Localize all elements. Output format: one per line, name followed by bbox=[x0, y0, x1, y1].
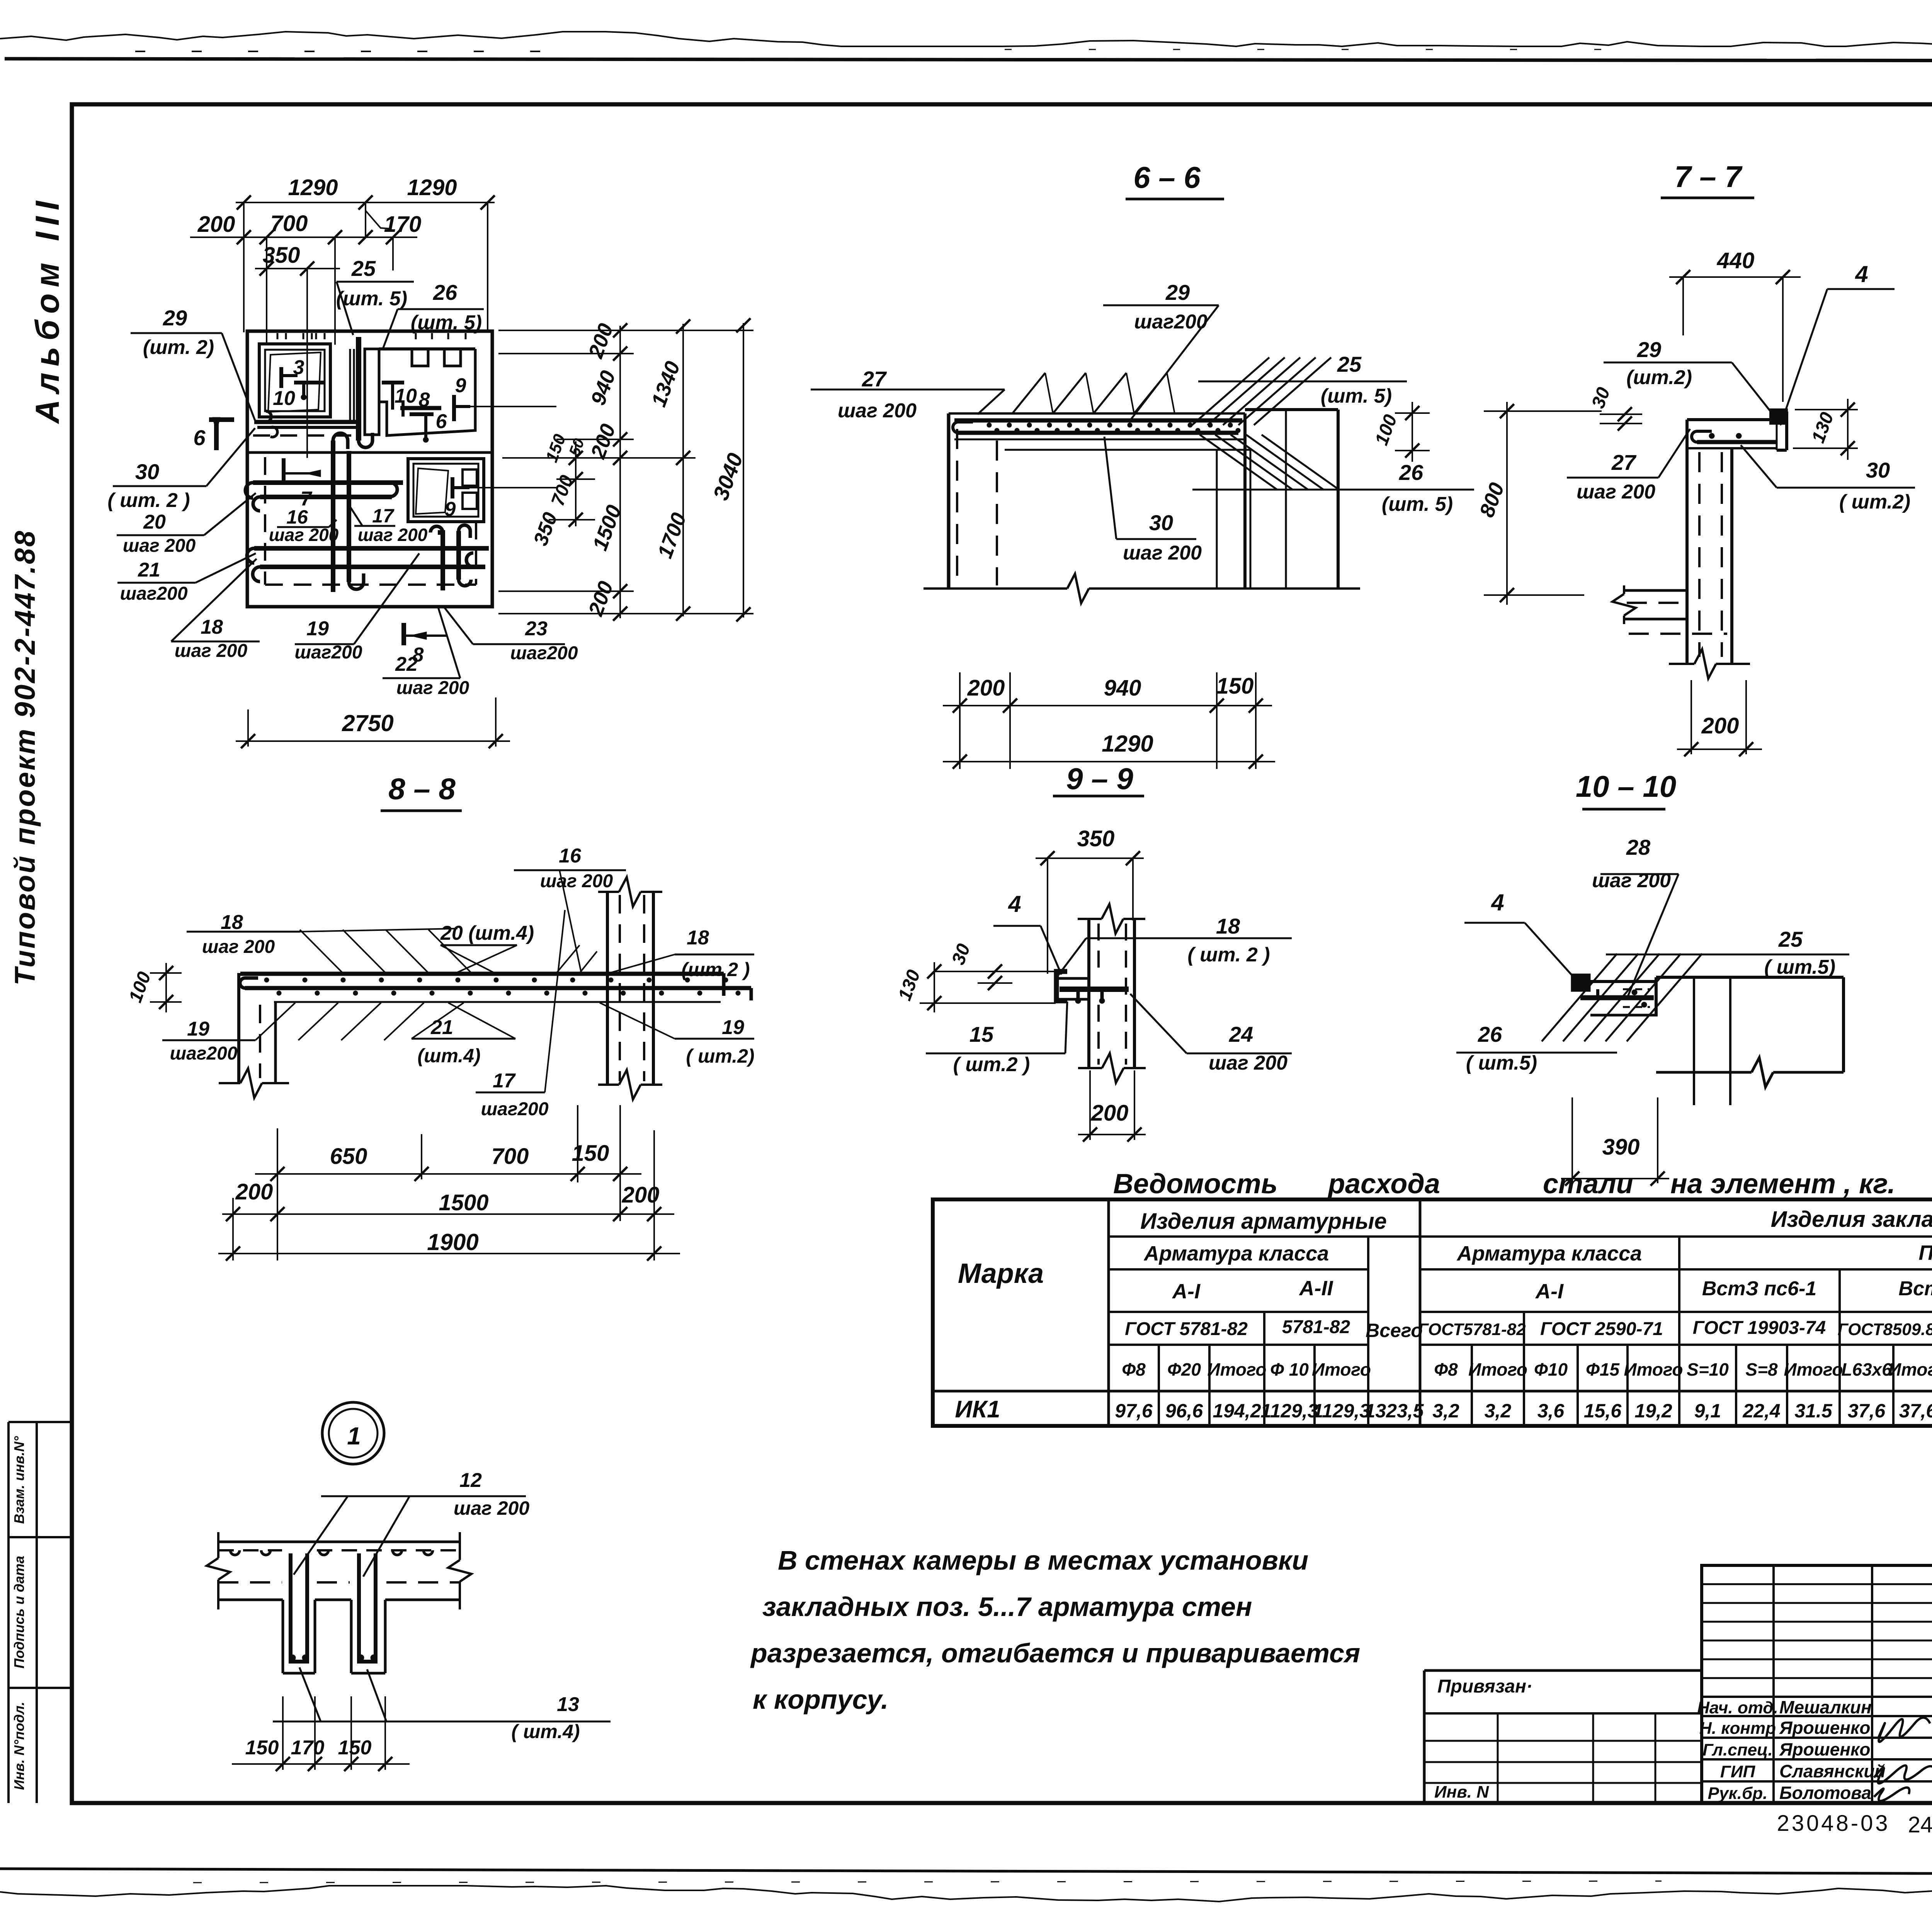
section 6-6 slab bbox=[949, 412, 1245, 415]
section 6-6 bottom dims 200 940 150 bbox=[943, 705, 1272, 706]
plan outer square bbox=[247, 331, 492, 607]
plan vertical rebar bar 16 bbox=[331, 441, 335, 592]
svg-text:Рук.бр.: Рук.бр. bbox=[1708, 1784, 1768, 1803]
svg-text:(шт.2 ): (шт.2 ) bbox=[681, 959, 750, 980]
svg-text:Альбом III: Альбом III bbox=[29, 195, 66, 424]
svg-text:Н. контр: Н. контр bbox=[1699, 1719, 1776, 1738]
svg-text:200: 200 bbox=[235, 1179, 273, 1204]
svg-text:1700: 1700 bbox=[653, 510, 690, 561]
plan right dim chain 1340-1700 bbox=[682, 324, 684, 616]
svg-text:12: 12 bbox=[459, 1469, 482, 1492]
section 9-9 dim 350 bbox=[1036, 857, 1144, 859]
svg-text:10 – 10: 10 – 10 bbox=[1576, 769, 1676, 803]
svg-text:1: 1 bbox=[347, 1422, 361, 1450]
svg-text:17: 17 bbox=[372, 505, 395, 527]
svg-text:25: 25 bbox=[351, 256, 376, 281]
svg-text:24: 24 bbox=[1229, 1022, 1253, 1046]
plan right dim chain 200-940-200-1500-200 bbox=[619, 326, 621, 618]
plan section cut mark 8 bottom bbox=[401, 623, 406, 645]
section 6-6 ground line with break bbox=[923, 587, 1067, 590]
svg-text:650: 650 bbox=[330, 1144, 367, 1169]
svg-text:37,6: 37,6 bbox=[1899, 1400, 1932, 1422]
plan rebar bar 18 lower bbox=[260, 565, 485, 569]
svg-text:шаг200: шаг200 bbox=[510, 643, 578, 663]
steel table horizontal lines bbox=[1109, 1235, 1932, 1238]
section 7-7 left stub wall bbox=[1624, 589, 1687, 592]
svg-text:6 – 6: 6 – 6 bbox=[1133, 160, 1201, 194]
svg-text:19: 19 bbox=[722, 1016, 744, 1039]
svg-text:Ярошенко: Ярошенко bbox=[1779, 1739, 1870, 1759]
svg-text:( шт. 2 ): ( шт. 2 ) bbox=[1187, 944, 1270, 966]
svg-text:17: 17 bbox=[493, 1070, 516, 1092]
svg-text:18: 18 bbox=[221, 911, 243, 934]
section 9-9 slab stub bbox=[1056, 977, 1089, 980]
section 7-7 bottom dim 200 bbox=[1677, 748, 1762, 750]
svg-text:13: 13 bbox=[557, 1693, 579, 1716]
section 10-10 slab bbox=[1590, 980, 1656, 983]
svg-text:350: 350 bbox=[1077, 826, 1115, 851]
svg-text:390: 390 bbox=[1602, 1135, 1640, 1160]
svg-text:150: 150 bbox=[338, 1737, 372, 1759]
svg-text:Привязан·: Привязан· bbox=[1437, 1676, 1532, 1697]
svg-text:18: 18 bbox=[687, 927, 709, 949]
svg-text:30: 30 bbox=[135, 459, 159, 484]
plan dimension 350 bbox=[255, 268, 340, 269]
plan center connector poz25 bbox=[356, 337, 361, 441]
section 6-6 right wall block bbox=[1245, 408, 1338, 411]
svg-text:350: 350 bbox=[529, 509, 562, 548]
svg-text:30: 30 bbox=[1588, 384, 1614, 411]
plan mid divider bbox=[247, 451, 492, 454]
detail 1 rib 2 bbox=[350, 1600, 353, 1673]
svg-text:27: 27 bbox=[1611, 450, 1637, 475]
svg-text:3: 3 bbox=[293, 356, 304, 379]
svg-text:170: 170 bbox=[384, 212, 422, 237]
svg-text:Подпись и дата: Подпись и дата bbox=[11, 1556, 27, 1669]
plan section cut mark 6 left bbox=[209, 417, 234, 422]
svg-text:Изделия закладные: Изделия закладные bbox=[1771, 1207, 1932, 1232]
svg-text:18: 18 bbox=[1216, 914, 1240, 938]
svg-text:( шт.5): ( шт.5) bbox=[1466, 1052, 1537, 1074]
svg-text:10: 10 bbox=[395, 385, 417, 407]
svg-text:шаг 200: шаг 200 bbox=[1577, 481, 1655, 503]
svg-text:5781-82: 5781-82 bbox=[1282, 1317, 1350, 1337]
svg-text:700: 700 bbox=[270, 211, 308, 236]
svg-text:150: 150 bbox=[542, 432, 570, 465]
svg-text:ГОСТ5781-82: ГОСТ5781-82 bbox=[1418, 1320, 1526, 1339]
svg-text:25: 25 bbox=[1778, 927, 1803, 951]
plan right dim chain 3040 bbox=[743, 323, 744, 617]
paper bottom edge dashes bbox=[193, 1881, 1662, 1883]
section 9-9 embed channel bbox=[1056, 971, 1067, 1001]
detail 1 rib 1 stirrup bbox=[291, 1553, 307, 1662]
svg-text:шаг200: шаг200 bbox=[170, 1043, 237, 1064]
svg-text:ГОСТ 19903-74: ГОСТ 19903-74 bbox=[1693, 1318, 1826, 1338]
svg-text:Итого: Итого bbox=[1888, 1359, 1932, 1380]
plan top-left opening formwork dashes bbox=[277, 333, 279, 343]
section 7-7 dim 130 bbox=[1795, 409, 1858, 410]
svg-text:22,4: 22,4 bbox=[1742, 1400, 1780, 1422]
svg-text:200: 200 bbox=[197, 212, 235, 237]
section 10-10 slab rebar bbox=[1580, 995, 1654, 1000]
svg-text:Арматура класса: Арматура класса bbox=[1456, 1242, 1642, 1265]
svg-text:16: 16 bbox=[559, 845, 582, 867]
svg-text:шаг 200: шаг 200 bbox=[1209, 1052, 1287, 1074]
svg-text:28: 28 bbox=[1626, 835, 1651, 859]
svg-text:940: 940 bbox=[1104, 675, 1141, 701]
title block central grid bbox=[1702, 1565, 1932, 1803]
plan bottom-right embed mark 9 bbox=[451, 477, 454, 498]
svg-text:170: 170 bbox=[291, 1737, 325, 1759]
svg-text:9: 9 bbox=[445, 498, 456, 521]
svg-text:ГИП: ГИП bbox=[1720, 1762, 1756, 1781]
title block Привязан box bbox=[1424, 1669, 1702, 1672]
svg-text:6: 6 bbox=[436, 410, 447, 433]
section 8-8 dim 100 left bbox=[150, 972, 182, 974]
section 8-8 slab rebar dots bbox=[264, 978, 269, 982]
svg-text:А-II: А-II bbox=[1299, 1277, 1333, 1300]
svg-text:Ф8: Ф8 bbox=[1122, 1359, 1146, 1380]
section 9-9 dim 130 bbox=[934, 971, 1056, 972]
paper bottom line bbox=[0, 1869, 1932, 1875]
svg-text:разрезается, отгибается и: разрезается, отгибается и приваривается bbox=[750, 1638, 1360, 1668]
plan right chain extension lines bbox=[498, 330, 753, 331]
section 6-6 slab rebar dots bbox=[987, 423, 992, 427]
plan rebar bar poz7 upper bbox=[253, 480, 403, 485]
svg-text:1129,3: 1129,3 bbox=[1260, 1400, 1318, 1422]
svg-text:закладных поз. 5...7 арматур: закладных поз. 5...7 арматура стен bbox=[762, 1592, 1252, 1622]
svg-text:(шт.4): (шт.4) bbox=[417, 1045, 480, 1067]
svg-text:27: 27 bbox=[862, 367, 887, 391]
section 6-6 left wall bbox=[947, 413, 951, 589]
svg-text:350: 350 bbox=[263, 243, 300, 268]
detail 1 slab bbox=[218, 1541, 460, 1543]
svg-text:940: 940 bbox=[586, 367, 620, 408]
steel table vertical lines bbox=[1107, 1199, 1110, 1426]
plan top-left embed mark 3 bbox=[279, 367, 283, 388]
svg-text:ВстЗ пс6-1: ВстЗ пс6-1 bbox=[1702, 1277, 1816, 1300]
svg-text:15: 15 bbox=[969, 1022, 994, 1046]
svg-text:1290: 1290 bbox=[407, 175, 457, 200]
section 6-6 dim 100 right bbox=[1395, 412, 1430, 414]
section 6-6 hatch for 26 bbox=[1200, 435, 1277, 490]
section 8-8 slab bbox=[240, 972, 724, 976]
svg-text:18: 18 bbox=[201, 616, 223, 638]
section 7-7 bottom break bbox=[1669, 663, 1694, 665]
svg-text:29: 29 bbox=[1637, 337, 1661, 362]
svg-text:Ведомость: Ведомость bbox=[1113, 1169, 1277, 1199]
svg-text:шаг 200: шаг 200 bbox=[123, 536, 196, 556]
svg-text:Итого: Итого bbox=[1784, 1359, 1843, 1380]
svg-text:Славянский: Славянский bbox=[1779, 1761, 1886, 1781]
steel table outer frame bbox=[933, 1199, 1932, 1426]
plan bottom dimension 2750 bbox=[236, 740, 510, 742]
svg-text:(шт.2): (шт.2) bbox=[1626, 366, 1692, 389]
svg-text:стали: стали bbox=[1543, 1169, 1633, 1199]
plan top-right embed mark 8 bbox=[400, 406, 441, 410]
svg-text:96,6: 96,6 bbox=[1165, 1400, 1204, 1422]
svg-text:9,1: 9,1 bbox=[1694, 1400, 1721, 1422]
plan leader from lower mark 9 bbox=[469, 487, 556, 488]
svg-text:(шт. 5): (шт. 5) bbox=[1321, 385, 1392, 407]
svg-text:1900: 1900 bbox=[427, 1229, 478, 1255]
svg-text:Мешалкин: Мешалкин bbox=[1779, 1697, 1872, 1717]
svg-text:9: 9 bbox=[455, 374, 466, 397]
title block Привязан sub rows bbox=[1424, 1740, 1702, 1742]
section 7-7 wall bbox=[1685, 420, 1689, 590]
plan leader from mark 9 to dims bbox=[470, 406, 556, 407]
section 7-7 slab bbox=[1687, 418, 1777, 421]
plan mini chain 50-150-700-350 bbox=[575, 441, 577, 526]
svg-text:21: 21 bbox=[138, 559, 160, 581]
detail 1 rib 2 stirrup bbox=[359, 1553, 376, 1662]
section 8-8 bottom dim 1900 bbox=[218, 1253, 680, 1254]
svg-text:3040: 3040 bbox=[708, 450, 748, 504]
svg-text:S=8: S=8 bbox=[1745, 1359, 1778, 1380]
svg-text:20 (шт.4): 20 (шт.4) bbox=[440, 922, 534, 944]
svg-text:9 – 9: 9 – 9 bbox=[1066, 762, 1133, 796]
svg-text:20: 20 bbox=[143, 511, 166, 533]
svg-text:19: 19 bbox=[187, 1018, 209, 1040]
svg-text:Изделия арматурные: Изделия арматурные bbox=[1140, 1209, 1387, 1234]
plan top dimension 1290+1290 bbox=[236, 202, 495, 203]
section 9-9 wall bbox=[1087, 919, 1090, 1068]
svg-text:Итого: Итого bbox=[1207, 1359, 1267, 1380]
plan rebar bar 19 upper bbox=[254, 546, 489, 551]
section 8-8 dim extension lines bbox=[232, 1198, 234, 1260]
plan dimension 200 700 170 bbox=[190, 236, 417, 238]
section 8-8 bottom dims 200 1500 200 bbox=[222, 1213, 674, 1215]
plan top-right formwork dashes bbox=[415, 333, 417, 343]
svg-text:( шт.5): ( шт.5) bbox=[1764, 956, 1835, 978]
section 10-10 bottom dim 390 bbox=[1561, 1178, 1669, 1179]
svg-text:1323,5: 1323,5 bbox=[1365, 1400, 1424, 1422]
svg-text:Ф20: Ф20 bbox=[1167, 1359, 1201, 1380]
svg-text:В стенах камеры в местах: В стенах камеры в местах установки bbox=[778, 1545, 1308, 1575]
svg-text:( шт.2): ( шт.2) bbox=[1839, 491, 1910, 513]
svg-text:37,6: 37,6 bbox=[1848, 1400, 1886, 1422]
svg-text:Ф15: Ф15 bbox=[1586, 1359, 1620, 1380]
svg-text:Инв. N°подл.: Инв. N°подл. bbox=[11, 1702, 27, 1790]
svg-text:ВстЗкп2: ВстЗкп2 bbox=[1898, 1277, 1932, 1300]
svg-text:200: 200 bbox=[586, 421, 620, 462]
svg-text:S=10: S=10 bbox=[1687, 1359, 1729, 1380]
svg-text:Ф 10: Ф 10 bbox=[1270, 1359, 1309, 1380]
svg-text:шаг 200: шаг 200 bbox=[396, 678, 469, 698]
svg-text:шаг200: шаг200 bbox=[481, 1099, 548, 1119]
svg-text:( шт.2 ): ( шт.2 ) bbox=[953, 1053, 1030, 1076]
svg-text:440: 440 bbox=[1717, 248, 1755, 273]
detail 1 right break bbox=[459, 1532, 461, 1560]
svg-text:21: 21 bbox=[430, 1016, 453, 1039]
svg-text:1290: 1290 bbox=[288, 175, 338, 200]
svg-text:шаг200: шаг200 bbox=[294, 642, 362, 663]
svg-text:Типовой проект 902-2-447.88: Типовой проект 902-2-447.88 bbox=[9, 529, 41, 986]
detail 1 rib 1 bbox=[282, 1600, 284, 1673]
svg-text:на элемент , кг.: на элемент , кг. bbox=[1670, 1169, 1895, 1199]
svg-text:26: 26 bbox=[433, 280, 457, 304]
plan top-right embed mark 10-T bbox=[382, 381, 404, 384]
svg-text:шаг 200: шаг 200 bbox=[358, 525, 428, 545]
svg-text:19: 19 bbox=[306, 617, 329, 640]
plan embed plate poz26 bbox=[365, 349, 379, 435]
svg-text:шаг 200: шаг 200 bbox=[838, 400, 917, 422]
svg-text:800: 800 bbox=[1475, 480, 1509, 520]
plan section 6 cut mark inside bbox=[282, 458, 286, 483]
section 6-6 hatch for 25 bbox=[1192, 357, 1269, 425]
svg-text:шаг 200: шаг 200 bbox=[540, 871, 613, 891]
svg-text:ГОСТ 5781-82: ГОСТ 5781-82 bbox=[1125, 1319, 1248, 1339]
paper top border line bbox=[5, 59, 1932, 61]
svg-text:6: 6 bbox=[193, 425, 206, 450]
svg-text:шаг 200: шаг 200 bbox=[454, 1497, 529, 1519]
svg-text:расхода: расхода bbox=[1327, 1169, 1440, 1199]
svg-text:Нач. отд.: Нач. отд. bbox=[1697, 1698, 1778, 1717]
svg-text:Ф8: Ф8 bbox=[1434, 1359, 1458, 1380]
section 9-9 dim 30 bbox=[974, 971, 1012, 972]
plan top-right embed mark 9 bbox=[452, 395, 456, 421]
svg-text:Ярошенко: Ярошенко bbox=[1779, 1718, 1870, 1738]
svg-text:26: 26 bbox=[1478, 1022, 1502, 1046]
plan bottom-right opening frame bbox=[408, 459, 484, 522]
svg-text:к корпусу.: к корпусу. bbox=[753, 1684, 888, 1715]
section 9-9 bottom dim 200 bbox=[1078, 1134, 1145, 1135]
svg-text:4: 4 bbox=[1855, 261, 1868, 287]
section 6-6 bottom dim 1290 bbox=[943, 761, 1275, 762]
svg-text:700: 700 bbox=[492, 1144, 529, 1169]
svg-text:23048-03: 23048-03 bbox=[1777, 1811, 1890, 1836]
plan leader 170 bbox=[366, 211, 391, 229]
detail 1 bottom dims 150 170 150 bbox=[232, 1763, 410, 1765]
svg-text:1340: 1340 bbox=[647, 358, 684, 410]
svg-text:шаг 200: шаг 200 bbox=[175, 641, 248, 661]
svg-text:Болотова: Болотова bbox=[1779, 1783, 1871, 1803]
plan bottom-right opening inner plates bbox=[463, 469, 477, 486]
svg-text:ГОСТ 2590-71: ГОСТ 2590-71 bbox=[1540, 1319, 1663, 1339]
plan rebar bar 29-30 below opening bbox=[254, 420, 357, 424]
section 8-8 right wall bbox=[606, 892, 609, 1085]
paper top edge dashes bbox=[135, 51, 580, 52]
svg-text:А-I: А-I bbox=[1172, 1280, 1201, 1303]
svg-text:100: 100 bbox=[1371, 412, 1401, 448]
svg-text:(шт. 5): (шт. 5) bbox=[411, 311, 482, 334]
svg-text:шаг 200: шаг 200 bbox=[1123, 542, 1202, 564]
svg-text:( шт.4): ( шт.4) bbox=[511, 1721, 580, 1742]
section 6-6 hatch for 27 bbox=[1012, 373, 1045, 413]
svg-text:23: 23 bbox=[525, 617, 548, 640]
paper torn bottom edge bbox=[0, 1886, 1932, 1903]
section 7-7 dim 440 bbox=[1669, 276, 1801, 278]
section 10-10 wall block bbox=[1656, 976, 1844, 979]
svg-text:200: 200 bbox=[1701, 713, 1739, 738]
svg-text:Итого: Итого bbox=[1312, 1359, 1371, 1380]
plan top-right opening notches bbox=[412, 350, 428, 366]
svg-text:L63x6: L63x6 bbox=[1841, 1359, 1892, 1380]
svg-text:3,6: 3,6 bbox=[1537, 1400, 1565, 1422]
svg-text:1290: 1290 bbox=[1102, 731, 1153, 757]
section 7-7 dim 30 bbox=[1600, 413, 1642, 415]
svg-text:шаг 200: шаг 200 bbox=[202, 937, 275, 957]
svg-text:25: 25 bbox=[1337, 352, 1362, 376]
svg-text:130: 130 bbox=[1808, 410, 1838, 446]
plan vertical rebar bar 17 bbox=[347, 451, 351, 582]
section 6-6 dim extension lines bbox=[959, 672, 961, 769]
svg-text:7 – 7: 7 – 7 bbox=[1674, 160, 1743, 194]
svg-text:1500: 1500 bbox=[439, 1190, 488, 1215]
plan rebar bar poz7 lower bbox=[260, 495, 392, 499]
section 7-7 embed plate bbox=[1770, 410, 1787, 424]
section 10-10 hatch bbox=[1542, 954, 1617, 1041]
svg-text:26: 26 bbox=[1399, 460, 1423, 485]
detail 1 marker circle bbox=[322, 1402, 384, 1464]
plan top dim extension lines bbox=[243, 202, 245, 332]
title block signatures scribbles bbox=[1878, 1718, 1930, 1742]
svg-text:3,2: 3,2 bbox=[1485, 1400, 1512, 1422]
svg-text:200: 200 bbox=[1091, 1101, 1129, 1126]
svg-text:150: 150 bbox=[245, 1737, 279, 1759]
plan bottom half dashed contour bbox=[264, 457, 266, 585]
svg-text:130: 130 bbox=[895, 967, 924, 1004]
section 9-9 slab rebar bold bbox=[1060, 987, 1129, 992]
svg-text:150: 150 bbox=[1216, 674, 1254, 699]
paper torn top edge bbox=[0, 32, 1932, 46]
svg-text:29: 29 bbox=[163, 306, 187, 330]
svg-text:Ф10: Ф10 bbox=[1534, 1359, 1568, 1380]
svg-text:Прокат марки: Прокат марки bbox=[1918, 1241, 1932, 1264]
svg-text:( шт.2): ( шт.2) bbox=[686, 1045, 754, 1067]
svg-text:97,6: 97,6 bbox=[1115, 1400, 1153, 1422]
svg-text:шаг200: шаг200 bbox=[1134, 311, 1207, 333]
svg-text:(шт. 2): (шт. 2) bbox=[143, 336, 214, 359]
svg-text:100: 100 bbox=[125, 969, 155, 1005]
svg-text:2750: 2750 bbox=[342, 710, 393, 736]
svg-text:шаг 200: шаг 200 bbox=[1592, 869, 1671, 892]
plan top-left opening frame bbox=[259, 344, 330, 417]
svg-text:Марка: Марка bbox=[958, 1258, 1044, 1289]
svg-text:10: 10 bbox=[273, 387, 295, 410]
plan top-right opening outline bbox=[379, 347, 475, 350]
svg-text:200: 200 bbox=[584, 320, 618, 361]
section 8-8 left wall below bbox=[237, 973, 240, 1082]
margin stamp table bbox=[7, 1422, 10, 1803]
svg-text:Взам. инв.N°: Взам. инв.N° bbox=[11, 1436, 27, 1524]
section 7-7 dim 800 bbox=[1484, 410, 1602, 412]
svg-text:1129,3: 1129,3 bbox=[1313, 1400, 1370, 1422]
section 8-8 bottom dims 650 700 150 bbox=[255, 1173, 641, 1175]
plan top-left embed mark 10 bbox=[294, 381, 324, 384]
svg-text:30: 30 bbox=[948, 941, 974, 968]
svg-text:Итого: Итого bbox=[1624, 1359, 1683, 1380]
svg-text:194,2: 194,2 bbox=[1213, 1400, 1261, 1422]
svg-text:4: 4 bbox=[1008, 891, 1021, 917]
plan top-right embed mark 6 bbox=[410, 412, 434, 416]
svg-text:Гл.спец.: Гл.спец. bbox=[1702, 1740, 1772, 1759]
svg-text:30: 30 bbox=[1149, 510, 1173, 535]
plan dashed line under bar bbox=[253, 434, 355, 437]
svg-text:200: 200 bbox=[967, 675, 1005, 701]
svg-text:Всего: Всего bbox=[1366, 1320, 1423, 1341]
svg-text:30: 30 bbox=[1866, 458, 1890, 482]
svg-text:31.5: 31.5 bbox=[1794, 1400, 1833, 1422]
svg-text:А-I: А-I bbox=[1535, 1280, 1564, 1303]
svg-text:8: 8 bbox=[419, 389, 430, 411]
plan bracket bar 22 bbox=[438, 532, 443, 590]
svg-text:шаг200: шаг200 bbox=[120, 583, 187, 604]
svg-text:700: 700 bbox=[548, 473, 577, 509]
section 10-10 embed angle bbox=[1572, 975, 1589, 990]
svg-text:29: 29 bbox=[1165, 280, 1190, 304]
svg-text:19,2: 19,2 bbox=[1634, 1400, 1672, 1422]
